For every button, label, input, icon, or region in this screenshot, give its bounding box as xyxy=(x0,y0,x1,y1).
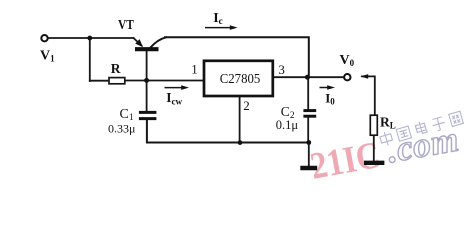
svg-text:Ic: Ic xyxy=(213,11,222,26)
svg-text:V0: V0 xyxy=(340,53,355,68)
svg-text:0.33μ: 0.33μ xyxy=(108,121,135,135)
svg-text:I0: I0 xyxy=(325,91,335,107)
svg-text:R: R xyxy=(111,61,121,76)
svg-text:VT: VT xyxy=(118,18,134,33)
svg-text:2: 2 xyxy=(243,98,250,113)
svg-text:Icw: Icw xyxy=(166,90,182,106)
svg-text:RL: RL xyxy=(380,114,396,130)
svg-text:V1: V1 xyxy=(40,49,55,64)
svg-text:1: 1 xyxy=(191,61,198,76)
svg-text:0.1μ: 0.1μ xyxy=(276,118,299,132)
svg-text:3: 3 xyxy=(278,62,285,77)
svg-text:C27805: C27805 xyxy=(220,72,261,87)
